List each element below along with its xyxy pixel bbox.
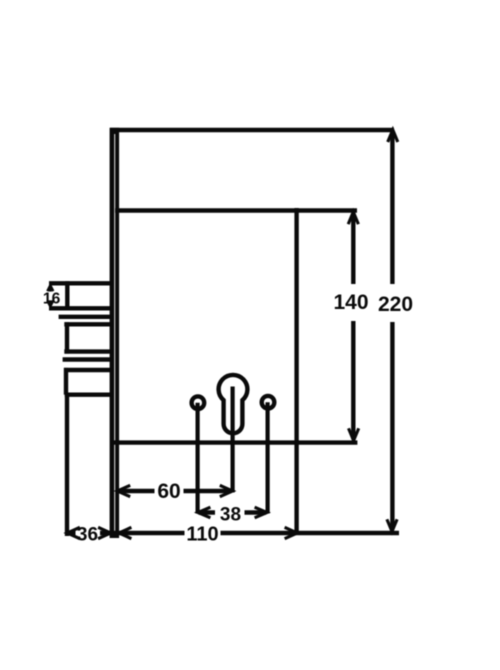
latch bolt rectangle <box>49 281 110 285</box>
dimension 110 left arrow <box>119 527 131 538</box>
faceplate (front plate, double vertical bar) <box>110 128 120 538</box>
screw hole left center line <box>196 403 200 514</box>
dimension 220 bottom arrow <box>387 519 397 531</box>
dimension 220 top arrow <box>388 130 398 142</box>
wire lock body top edge <box>115 208 357 212</box>
lock case lower-left edge <box>65 395 69 536</box>
wire lock body right edge <box>294 208 298 534</box>
dimension 60 left arrow <box>117 485 130 496</box>
svg-text:140: 140 <box>333 291 368 314</box>
dimension 140 top arrow <box>348 212 358 224</box>
dimension 220 line <box>390 131 394 284</box>
dimension 60 right arrow <box>220 485 233 496</box>
dimension 36 right arrow <box>98 527 111 538</box>
lower bolt rectangle <box>64 368 112 372</box>
strike strip line <box>59 315 112 319</box>
svg-text:110: 110 <box>186 524 218 546</box>
screw hole right center line <box>266 402 270 513</box>
svg-text:38: 38 <box>220 504 241 525</box>
screw hole right circle <box>262 396 275 409</box>
dimension 60 line <box>119 489 155 493</box>
deadbolt rectangle <box>64 322 112 326</box>
svg-text:36: 36 <box>77 524 98 545</box>
wire lock body bottom edge <box>114 440 357 444</box>
lower strip line <box>63 357 112 361</box>
dimension bottom line 36 / 110 <box>67 531 76 535</box>
dimension 140 bottom arrow <box>349 428 359 440</box>
screw hole left circle <box>192 396 205 409</box>
svg-text:220: 220 <box>378 293 413 316</box>
dimension 36 left arrow <box>67 527 80 538</box>
dimension 110 right arrow <box>285 527 298 538</box>
keyhole center line <box>231 387 235 493</box>
dimension 140 line <box>351 214 355 284</box>
dimension 16 arrows <box>47 285 53 291</box>
dimension 38 line <box>199 510 216 514</box>
svg-text:16: 16 <box>43 291 61 308</box>
dimension 38 right arrow <box>255 507 267 518</box>
svg-text:60: 60 <box>157 480 180 503</box>
dimension 38 left arrow <box>198 507 211 518</box>
keyhole euro cylinder outline <box>219 375 248 433</box>
wire top edge line <box>110 128 394 132</box>
